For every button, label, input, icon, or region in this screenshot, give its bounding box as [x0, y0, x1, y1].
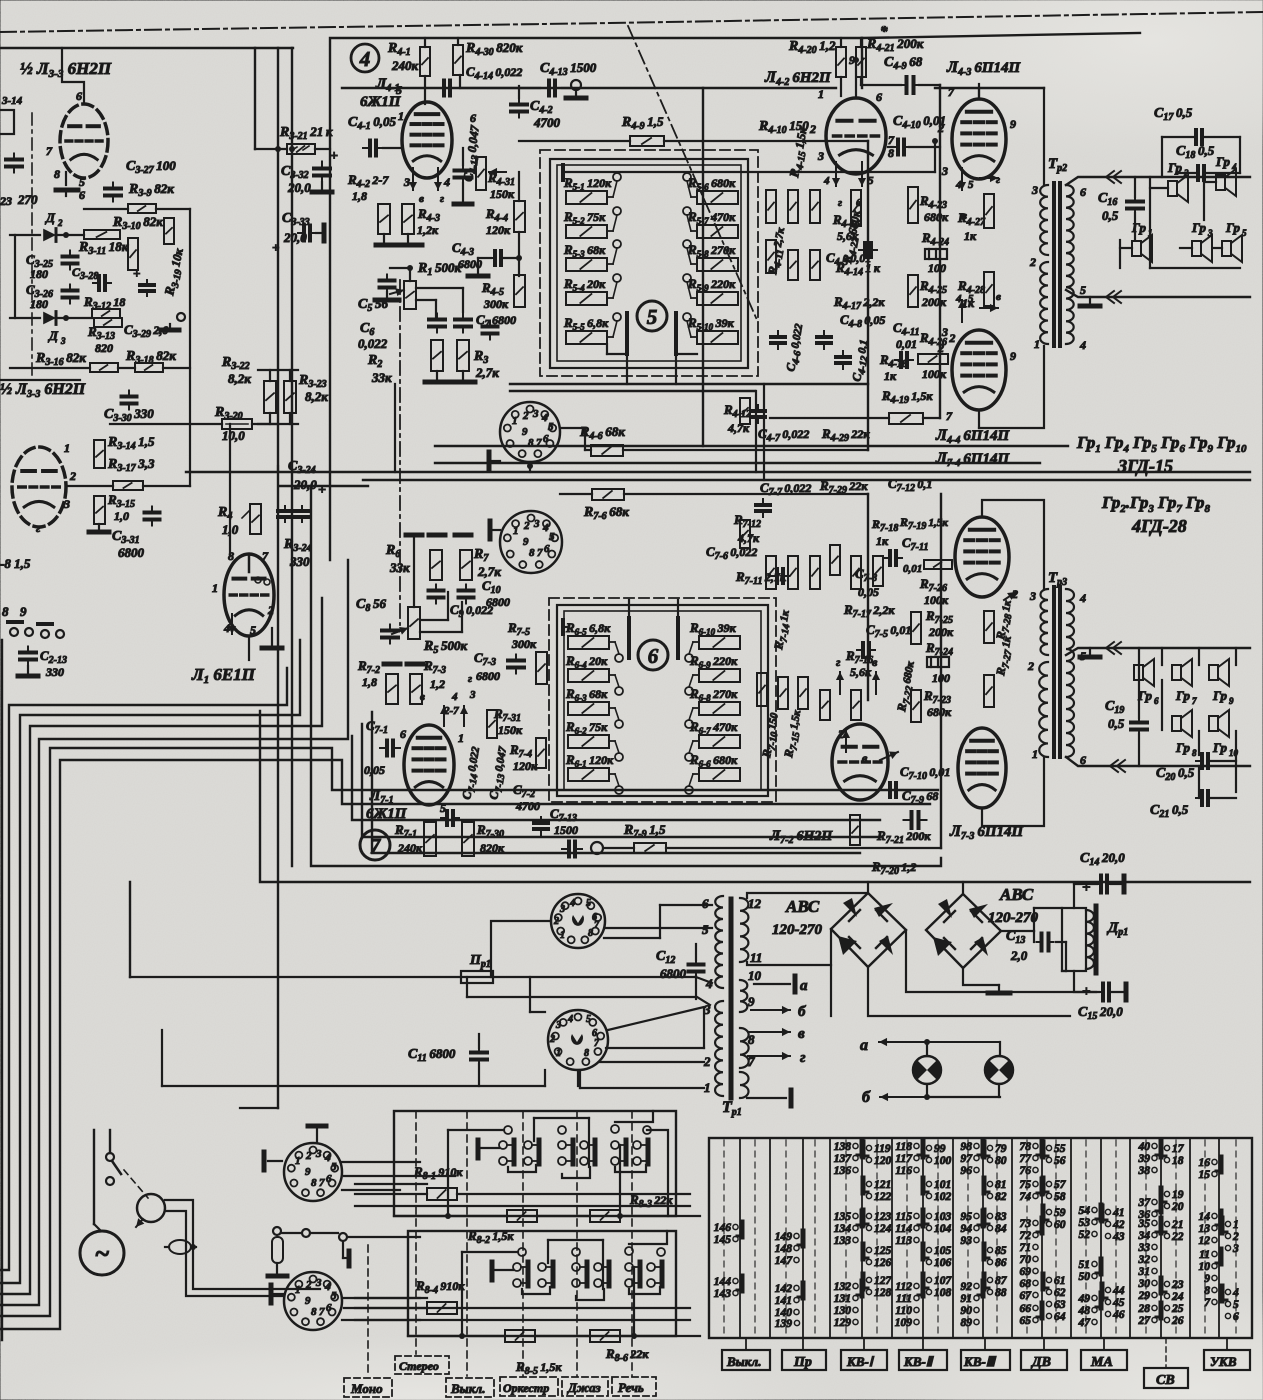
- svg-text:R5-7 470к: R5-7 470к: [687, 209, 736, 226]
- left vertical wire x50 bundleE: [0, 748, 938, 1316]
- table tick Пр: [802, 1338, 804, 1350]
- svg-text:11: 11: [1199, 1249, 1210, 1261]
- svg-text:100к: 100к: [924, 593, 949, 607]
- svg-text:0,01: 0,01: [903, 563, 922, 575]
- bank5 right bus vertical: [934, 141, 936, 172]
- socket bottom stub: [529, 462, 531, 472]
- svg-text:½ Л3-3 6Н2П: ½ Л3-3 6Н2П: [0, 381, 86, 400]
- svg-text:0,05: 0,05: [858, 585, 879, 599]
- terminal circle: [571, 80, 581, 90]
- tap a T-bar: [754, 983, 790, 985]
- svg-text:144: 144: [714, 1276, 732, 1288]
- table column line: [1189, 1138, 1191, 1338]
- svg-text:R5-8 270к: R5-8 270к: [687, 242, 736, 259]
- svg-text:г: г: [36, 521, 41, 535]
- svg-text:1: 1: [1032, 747, 1038, 761]
- svg-text:21: 21: [1171, 1219, 1184, 1231]
- svg-text:4700: 4700: [533, 115, 561, 130]
- svg-text:+: +: [318, 483, 326, 498]
- ground below tube: [56, 188, 78, 193]
- svg-text:5: 5: [250, 623, 256, 637]
- svg-text:Д: Д: [45, 210, 56, 225]
- table column line: [891, 1138, 893, 1338]
- ground bridge2: [998, 985, 1000, 993]
- wire x292 junction dots: [275, 146, 281, 152]
- svg-text:1,2: 1,2: [430, 677, 445, 691]
- svg-text:1: 1: [295, 1155, 301, 1167]
- bridge2 bottom to ground: [963, 968, 999, 985]
- svg-text:2: 2: [57, 218, 63, 228]
- svg-text:122: 122: [874, 1191, 892, 1203]
- svg-text:Моно: Моно: [350, 1381, 383, 1396]
- svg-text:20,0: 20,0: [293, 477, 317, 492]
- tube L7-3 lower 6П14П: [958, 728, 1006, 808]
- chevron s7 bottom: [1110, 760, 1118, 772]
- svg-text:37: 37: [1138, 1197, 1152, 1209]
- svg-text:R5-6 680к: R5-6 680к: [687, 175, 736, 192]
- svg-text:9: 9: [748, 994, 755, 1009]
- speaker Гр7: [1172, 665, 1181, 680]
- dial lamp 2: [985, 1056, 1013, 1084]
- switch contact group: [499, 1141, 507, 1149]
- resistor R4-4 120к: [514, 201, 525, 232]
- table column line: [1218, 1138, 1220, 1338]
- svg-text:77: 77: [1020, 1153, 1033, 1165]
- grid caps below R6 R7: [435, 585, 437, 591]
- svg-text:6: 6: [702, 896, 709, 911]
- svg-text:1: 1: [458, 731, 464, 745]
- svg-text:33к: 33к: [371, 370, 392, 385]
- wire Tr3 secondary bottom: [1066, 757, 1250, 766]
- bank5 outer dashed box: [540, 150, 758, 376]
- svg-text:150к: 150к: [490, 187, 515, 201]
- svg-text:95: 95: [961, 1211, 973, 1223]
- svg-text:5: 5: [586, 898, 591, 909]
- long vertical x941 s7: [940, 494, 942, 848]
- section number 7: [360, 830, 390, 860]
- capacitor C4-7 0,022: [757, 405, 759, 411]
- resistor R4-15 box: [788, 190, 798, 223]
- grounds below R2 R3: [436, 371, 438, 382]
- svg-text:300к: 300к: [483, 297, 509, 311]
- ground Tr2 secondary: [1089, 297, 1091, 306]
- svg-text:80: 80: [995, 1155, 1007, 1167]
- table dashed line: [754, 1140, 756, 1336]
- svg-text:3: 3: [532, 408, 539, 420]
- switch contact group: [513, 1263, 521, 1271]
- svg-text:10,0: 10,0: [222, 428, 245, 443]
- wire 12 to bridge: [747, 893, 868, 898]
- svg-text:87: 87: [995, 1275, 1008, 1287]
- svg-text:АВС: АВС: [999, 885, 1034, 904]
- svg-text:6Ж1П: 6Ж1П: [366, 806, 408, 822]
- svg-text:6: 6: [326, 1173, 332, 1185]
- svg-text:2: 2: [69, 469, 76, 483]
- svg-text:3: 3: [315, 1277, 322, 1289]
- svg-text:126: 126: [874, 1257, 892, 1269]
- svg-text:6: 6: [470, 111, 476, 125]
- svg-text:Гр: Гр: [1212, 740, 1227, 755]
- resistor R8-2 on bus: [507, 1210, 537, 1222]
- section 4 frame: [330, 38, 862, 560]
- svg-text:5: 5: [968, 179, 974, 191]
- svg-text:28: 28: [1138, 1303, 1151, 1315]
- svg-text:86: 86: [995, 1257, 1007, 1269]
- svg-text:180: 180: [30, 297, 48, 311]
- wire tube plate up: [62, 48, 84, 104]
- svg-text:200к: 200к: [921, 295, 947, 309]
- svg-text:8: 8: [1192, 748, 1197, 758]
- svg-text:2: 2: [1183, 168, 1189, 178]
- bank6 outer dashed box: [549, 598, 776, 802]
- table dashed line: [1026, 1140, 1028, 1336]
- svg-text:4: 4: [1231, 162, 1237, 172]
- grounds below R4-2 R4-3: [376, 243, 398, 248]
- svg-text:Гр: Гр: [1225, 220, 1240, 235]
- wire bank5 right leg2: [763, 384, 765, 480]
- svg-text:5: 5: [549, 531, 555, 543]
- svg-text:R5-9 220к: R5-9 220к: [687, 276, 736, 293]
- top dash-dot boundary line: [0, 12, 1263, 32]
- left wire bundle L1: [0, 668, 287, 1270]
- wire bank5 right leg1: [755, 391, 757, 472]
- svg-text:128: 128: [874, 1287, 892, 1299]
- svg-text:Выкл.: Выкл.: [450, 1381, 485, 1396]
- ground left of socket: [489, 460, 500, 462]
- lower matrix top circles: [518, 1248, 526, 1256]
- svg-text:70: 70: [1020, 1254, 1032, 1266]
- svg-text:+: +: [330, 149, 338, 164]
- speaker Гр9: [1209, 665, 1218, 680]
- B+ bus y88: [342, 87, 836, 89]
- svg-text:6: 6: [1154, 696, 1159, 706]
- table dashed line: [1115, 1140, 1117, 1336]
- tube L3-3a (dashed): [60, 104, 108, 178]
- svg-text:+: +: [272, 240, 279, 255]
- svg-text:115: 115: [895, 1211, 912, 1223]
- svg-text:5,6к: 5,6к: [837, 229, 859, 243]
- bank5 inner box: [557, 165, 741, 361]
- wire row y486 left: [66, 485, 113, 487]
- svg-text:6: 6: [876, 90, 882, 104]
- svg-text:300к: 300к: [511, 637, 537, 651]
- bridge1 left down: [830, 965, 832, 1016]
- svg-text:Л4-4 6П14П: Л4-4 6П14П: [935, 427, 1010, 446]
- svg-text:15: 15: [1199, 1169, 1211, 1181]
- bank5 left contact bar: [625, 313, 629, 354]
- svg-text:1: 1: [1233, 1219, 1239, 1231]
- svg-text:R6-1 120к: R6-1 120к: [565, 752, 614, 769]
- svg-text:2: 2: [553, 916, 559, 927]
- socket B: [284, 1272, 342, 1330]
- ground below C4-13: [454, 202, 472, 207]
- capacitor C7-7: [762, 499, 764, 505]
- svg-text:44: 44: [1112, 1285, 1125, 1297]
- svg-text:32: 32: [1138, 1254, 1151, 1266]
- svg-text:6: 6: [400, 727, 406, 741]
- speaker Гр5: [1222, 241, 1231, 256]
- tube L7-2 6Н2П: [832, 724, 888, 800]
- svg-text:100: 100: [928, 261, 946, 275]
- svg-text:69: 69: [1020, 1266, 1032, 1278]
- svg-text:3: 3: [1029, 589, 1036, 603]
- bridge1 diodes: [843, 898, 857, 917]
- section number 6: [638, 640, 668, 670]
- label box КВ-II: [899, 1350, 947, 1370]
- svg-text:72: 72: [1020, 1230, 1032, 1242]
- bridge tops to rail: [867, 882, 869, 893]
- chevron s7 top: [1106, 642, 1114, 654]
- svg-text:1к: 1к: [964, 229, 977, 243]
- wire 11 to bridge: [747, 929, 831, 965]
- svg-text:680к: 680к: [924, 210, 949, 224]
- svg-text:131: 131: [834, 1293, 851, 1305]
- table column line: [1129, 1138, 1131, 1338]
- svg-text:61: 61: [1054, 1275, 1066, 1287]
- svg-text:4: 4: [1079, 591, 1086, 605]
- ground Tr3 tap: [1089, 648, 1091, 657]
- svg-text:81: 81: [995, 1179, 1007, 1191]
- svg-text:47: 47: [1078, 1317, 1092, 1329]
- bank5 solid box: [550, 159, 748, 368]
- svg-text:3: 3: [941, 164, 948, 178]
- switch contact group: [633, 1141, 641, 1149]
- svg-text:14: 14: [1199, 1211, 1211, 1223]
- section number 5: [637, 301, 667, 331]
- speaker net wires s7: [1161, 648, 1163, 665]
- svg-text:12: 12: [1199, 1235, 1211, 1247]
- label box КВ-III: [961, 1350, 1010, 1370]
- table dashed line: [1175, 1140, 1177, 1336]
- svg-text:б: б: [862, 1089, 871, 1106]
- svg-text:120к: 120к: [486, 223, 511, 237]
- svg-text:0,022: 0,022: [358, 336, 388, 351]
- mains switch contacts: [106, 1153, 114, 1161]
- svg-text:1,8: 1,8: [362, 675, 377, 689]
- svg-text:5: 5: [79, 175, 85, 189]
- resistor R4-14 box: [788, 250, 798, 280]
- svg-text:139: 139: [775, 1318, 793, 1330]
- svg-text:103: 103: [934, 1211, 952, 1223]
- svg-text:2: 2: [549, 1034, 555, 1045]
- wires R1 wiper: [416, 287, 463, 289]
- svg-text:г: г: [440, 193, 444, 205]
- bank6 top wires: [628, 600, 630, 618]
- svg-text:Л1 6Е1П: Л1 6Е1П: [191, 665, 256, 686]
- Tr1 left winding lower: [715, 1001, 723, 1096]
- svg-text:124: 124: [874, 1223, 892, 1235]
- table dashed line: [723, 1140, 725, 1336]
- svg-text:R6-9 220к: R6-9 220к: [689, 653, 738, 670]
- svg-text:143: 143: [714, 1288, 732, 1300]
- svg-text:116: 116: [895, 1165, 912, 1177]
- svg-text:4: 4: [823, 175, 830, 187]
- rectifier bridge 2: [926, 894, 1001, 968]
- resistor R4-11 box: [766, 240, 776, 273]
- svg-text:82: 82: [995, 1191, 1007, 1203]
- svg-text:33: 33: [1138, 1242, 1151, 1254]
- svg-text:2: 2: [267, 603, 274, 617]
- svg-text:62: 62: [1054, 1287, 1066, 1299]
- svg-text:132: 132: [834, 1281, 852, 1293]
- svg-text:107: 107: [934, 1275, 953, 1287]
- svg-text:3: 3: [533, 518, 540, 530]
- wire L7-3 lower plate to Tr3: [982, 757, 1044, 826]
- wire top row: [460, 87, 540, 89]
- svg-text:88: 88: [995, 1287, 1007, 1299]
- svg-text:б: б: [798, 1004, 806, 1020]
- switch matrix lower box: [408, 1231, 676, 1336]
- tube L1 6E1P magic eye: [224, 554, 274, 636]
- svg-text:7: 7: [888, 133, 895, 147]
- svg-text:8: 8: [54, 167, 60, 181]
- wire y391: [510, 390, 755, 392]
- svg-text:2: 2: [1027, 659, 1034, 673]
- svg-text:5: 5: [968, 293, 974, 305]
- svg-text:6: 6: [543, 433, 549, 445]
- svg-text:в: в: [798, 1026, 805, 1042]
- svg-text:3: 3: [941, 325, 948, 339]
- svg-text:270: 270: [17, 192, 38, 207]
- label box УКВ: [1204, 1350, 1250, 1370]
- pickup ellipse: [169, 1240, 191, 1254]
- svg-text:89: 89: [961, 1317, 973, 1329]
- terminal circle output: [177, 313, 185, 321]
- bridge2 diodes: [938, 899, 952, 918]
- bank5 bottom wires: [626, 354, 628, 384]
- svg-text:4: 4: [567, 1014, 573, 1025]
- vertical wire x190: [189, 209, 191, 424]
- choke Др1: [1062, 908, 1086, 971]
- resistor R4-25 200к: [908, 275, 918, 307]
- svg-text:111: 111: [896, 1293, 912, 1305]
- svg-text:2: 2: [522, 410, 529, 422]
- dash-dot vertical x32: [31, 113, 33, 377]
- svg-text:127: 127: [874, 1275, 893, 1287]
- svg-text:147: 147: [775, 1255, 794, 1267]
- svg-text:Гр: Гр: [1131, 220, 1146, 235]
- svg-text:4: 4: [451, 691, 458, 703]
- svg-text:9: 9: [1229, 696, 1234, 706]
- svg-text:+: +: [133, 266, 140, 281]
- svg-text:Пр: Пр: [793, 1355, 812, 1370]
- svg-text:68: 68: [1020, 1278, 1032, 1290]
- svg-text:Выкл.: Выкл.: [726, 1354, 761, 1369]
- capacitor grid: [489, 321, 491, 327]
- svg-text:680к: 680к: [927, 705, 952, 719]
- label box КВ-I: [841, 1350, 887, 1370]
- svg-text:1,8: 1,8: [352, 189, 367, 203]
- long wire y446 (to tubes): [435, 445, 1068, 447]
- wire R3-21 row: [255, 148, 287, 150]
- svg-text:30: 30: [1138, 1278, 1151, 1290]
- label box Выкл: [722, 1350, 770, 1370]
- Tr1 right winding 8-7: [740, 1028, 749, 1068]
- wire L4-3 plate to Tr2: [978, 88, 980, 99]
- svg-text:23: 23: [1171, 1279, 1184, 1291]
- ground right of C3-33: [316, 232, 324, 234]
- table column line: [769, 1138, 771, 1338]
- svg-text:6800: 6800: [486, 595, 510, 609]
- svg-text:96: 96: [961, 1165, 973, 1177]
- svg-text:6800: 6800: [660, 966, 687, 981]
- svg-text:125: 125: [874, 1245, 892, 1257]
- svg-text:R5-2 75к: R5-2 75к: [563, 209, 606, 226]
- svg-text:112: 112: [895, 1281, 912, 1293]
- svg-text:1: 1: [212, 581, 218, 595]
- svg-text:Гр: Гр: [1215, 154, 1230, 169]
- svg-text:73: 73: [1020, 1218, 1032, 1230]
- ground left of socket B: [271, 1293, 284, 1295]
- svg-text:8: 8: [311, 1306, 317, 1318]
- svg-text:Л7-2 6Н2П: Л7-2 6Н2П: [769, 828, 833, 846]
- bank6 inner box: [564, 611, 761, 790]
- long vertical x868 s7: [867, 494, 869, 700]
- svg-text:7: 7: [537, 547, 543, 559]
- table column line: [861, 1138, 863, 1338]
- T-bar right of jack: [347, 1251, 352, 1266]
- svg-text:67: 67: [1020, 1290, 1033, 1302]
- svg-text:1,0: 1,0: [114, 509, 129, 523]
- resistor R4-17 box: [810, 250, 820, 280]
- transformer Tr2 left winding upper: [1040, 185, 1048, 255]
- speaker Гр4: [1216, 175, 1225, 190]
- svg-text:106: 106: [934, 1257, 952, 1269]
- svg-text:3: 3: [469, 689, 476, 701]
- svg-text:71: 71: [1020, 1242, 1032, 1254]
- wire diode row: [10, 234, 40, 236]
- svg-text:38: 38: [1138, 1165, 1151, 1177]
- svg-text:г: г: [800, 1050, 806, 1066]
- table column line: [982, 1138, 984, 1338]
- svg-text:3: 3: [1232, 1243, 1239, 1255]
- table column line: [1160, 1138, 1162, 1338]
- svg-text:100: 100: [934, 1155, 952, 1167]
- svg-text:5: 5: [1242, 228, 1247, 238]
- svg-text:123: 123: [874, 1211, 892, 1223]
- tap b arrow: [751, 1009, 790, 1011]
- svg-text:22: 22: [1171, 1231, 1184, 1243]
- table dashed line: [937, 1140, 939, 1336]
- tap v arrow: [748, 1031, 790, 1033]
- resistor R4-10 box: [766, 190, 776, 223]
- svg-text:75: 75: [1020, 1179, 1032, 1191]
- svg-text:9: 9: [1204, 1273, 1210, 1285]
- svg-text:СВ: СВ: [1156, 1373, 1175, 1388]
- svg-text:120-270: 120-270: [772, 922, 822, 938]
- svg-text:в: в: [420, 691, 425, 703]
- svg-text:8: 8: [1204, 1285, 1210, 1297]
- resistor R4-5 300к: [514, 275, 525, 307]
- bank5 right contact bar: [674, 313, 678, 354]
- table dashed line: [906, 1140, 908, 1336]
- label box Стерео: [395, 1356, 449, 1374]
- svg-text:Гр2.Гр3 Гр7 Гр8: Гр2.Гр3 Гр7 Гр8: [1101, 493, 1210, 515]
- svg-text:46: 46: [1112, 1309, 1125, 1321]
- speaker Гр8: [1172, 716, 1181, 731]
- resistor R4-22 box: [851, 190, 861, 226]
- svg-text:7: 7: [46, 144, 53, 158]
- svg-text:1: 1: [512, 415, 518, 427]
- svg-text:8: 8: [584, 1048, 589, 1059]
- svg-text:94: 94: [961, 1223, 973, 1235]
- ground below C4-3 lead: [468, 274, 488, 279]
- svg-text:4: 4: [443, 175, 450, 189]
- svg-text:R5-5 6,8к: R5-5 6,8к: [563, 315, 609, 332]
- svg-text:3: 3: [817, 149, 824, 163]
- table tick КВ-II: [922, 1338, 924, 1350]
- svg-text:41: 41: [1112, 1207, 1125, 1219]
